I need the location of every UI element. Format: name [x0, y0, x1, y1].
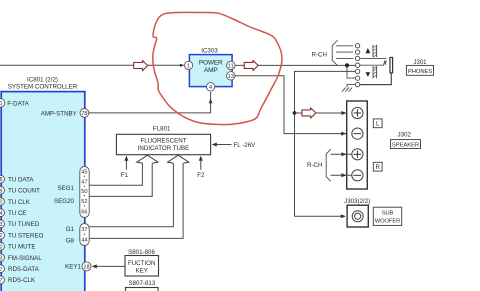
- switch direction triangle down: [366, 72, 371, 77]
- svg-text:FL -26V: FL -26V: [234, 142, 257, 149]
- label FL -26V with arrow into FL801: [212, 142, 257, 149]
- ground chassis symbol: [342, 88, 352, 92]
- wire IC303 pin 11 to J301 node: [235, 64, 356, 66]
- svg-text:SUB: SUB: [382, 211, 394, 217]
- filament arrow F1: [121, 156, 129, 179]
- IC801 system controller box: [1, 77, 85, 291]
- label J301 PHONES: [406, 60, 433, 76]
- svg-text:INDICATOR TUBE: INDICATOR TUBE: [138, 145, 190, 152]
- fluorescent tube FL801 box: [116, 125, 210, 154]
- IC801 pin 78 AMP-STNBY: [41, 109, 89, 118]
- IC303 pin 13: [227, 72, 235, 80]
- wire AMP-STNBY pin 78 to IC303 pin 4: [89, 92, 213, 113]
- svg-text:KEY1: KEY1: [65, 264, 81, 271]
- svg-text:G8: G8: [66, 238, 75, 245]
- subwoofer connector J303: [344, 198, 370, 227]
- svg-text:50: 50: [81, 189, 87, 195]
- svg-text:L: L: [376, 121, 380, 128]
- svg-text:0: 0: [0, 200, 3, 206]
- svg-text:IC801 (2/2): IC801 (2/2): [27, 77, 58, 84]
- svg-text:1: 1: [187, 63, 190, 69]
- IC303 pin 4: [206, 83, 214, 91]
- svg-text:J301: J301: [413, 60, 427, 66]
- svg-text:FM-SIGNAL: FM-SIGNAL: [8, 255, 42, 262]
- svg-text:7: 7: [0, 278, 3, 284]
- svg-text:R-CH: R-CH: [307, 162, 322, 169]
- svg-text:2: 2: [0, 233, 3, 239]
- J302 terminal plus L: [352, 107, 363, 118]
- function key switches S801-806: [125, 249, 159, 276]
- svg-text:TU STEREO: TU STEREO: [8, 232, 44, 239]
- svg-text:SYSTEM CONTROLLER: SYSTEM CONTROLLER: [8, 84, 78, 91]
- svg-text:11: 11: [228, 63, 234, 69]
- block arrow SEG bus into FL801: [137, 155, 158, 163]
- svg-text:R-CH: R-CH: [312, 51, 327, 58]
- switch direction triangle up: [366, 48, 371, 53]
- IC801 left pins TU/RDS group: [0, 175, 44, 284]
- svg-text:TU CE: TU CE: [8, 210, 27, 217]
- svg-text:SEG1: SEG1: [57, 185, 74, 192]
- wire IC303 pin 13 to J302 minus L: [235, 76, 346, 134]
- svg-text:SPEAKER: SPEAKER: [392, 142, 419, 148]
- jack spring contact lower: [373, 66, 377, 78]
- red annotation arrow A2: [244, 60, 258, 70]
- svg-text:7: 7: [0, 267, 3, 273]
- J302 terminal minus R: [352, 170, 363, 181]
- svg-text:47: 47: [81, 180, 87, 186]
- J302 terminal plus R: [352, 149, 363, 160]
- node junction speaker feed: [293, 111, 297, 115]
- wire R-CH to plus R: [331, 153, 353, 155]
- speaker connector J302 box: [347, 101, 368, 189]
- wire SEG1 pin 47 to block arrow: [89, 163, 142, 185]
- svg-text:FLUORESCENT: FLUORESCENT: [140, 137, 186, 144]
- op-amp IC303 POWER AMP box: [189, 48, 232, 87]
- svg-text:3: 3: [0, 222, 3, 228]
- svg-text:KEY: KEY: [136, 268, 148, 275]
- svg-text:R: R: [375, 164, 380, 171]
- svg-text:TU COUNT: TU COUNT: [8, 188, 40, 195]
- IC801 G pin group capsule 37-44: [80, 224, 89, 246]
- wire S801-806 to KEY1 pin 18: [92, 264, 125, 268]
- IC801 pin 70 F-DATA: [0, 99, 30, 108]
- IC801 SEG pin group capsule 45-66: [80, 167, 89, 218]
- headphone jack J301 contacts: [336, 44, 360, 87]
- svg-text:WOOFER: WOOFER: [375, 218, 400, 224]
- wire c6 to junction: [347, 65, 355, 78]
- svg-text:J302: J302: [397, 131, 411, 138]
- svg-text:RDS-DATA: RDS-DATA: [8, 266, 40, 273]
- wire G1 pin 37 to block arrow: [89, 163, 173, 227]
- svg-text:TU TUNED: TU TUNED: [8, 221, 40, 228]
- wire SEG20 pin 50 to block arrow: [89, 163, 152, 196]
- svg-text:S801-806: S801-806: [128, 249, 155, 256]
- wire jack sleeve to c7: [360, 73, 392, 85]
- svg-text:18: 18: [83, 265, 89, 271]
- filament arrow F2: [197, 156, 205, 179]
- svg-text:S807-813: S807-813: [128, 280, 155, 287]
- svg-text:37: 37: [81, 227, 87, 233]
- svg-text:66: 66: [81, 210, 87, 216]
- red annotation arrow A1: [134, 61, 148, 71]
- IC303 pin 1: [185, 61, 193, 69]
- svg-text:0: 0: [0, 244, 3, 250]
- svg-text:IC303: IC303: [201, 48, 218, 55]
- red freehand circle around IC303: [153, 12, 282, 124]
- wire node to J302 plus L: [295, 112, 353, 114]
- svg-text:45: 45: [81, 170, 87, 176]
- wire c7 to ground: [347, 85, 355, 88]
- wire phones return c5 to speaker node: [295, 71, 356, 113]
- svg-text:F1: F1: [121, 172, 129, 179]
- svg-text:TU DATA: TU DATA: [8, 176, 34, 183]
- label SUB WOOFER: [373, 207, 401, 225]
- red annotation arrow A3: [302, 108, 316, 118]
- svg-text:78: 78: [81, 111, 87, 117]
- svg-text:F-DATA: F-DATA: [7, 100, 29, 107]
- svg-text:G1: G1: [66, 226, 75, 233]
- svg-text:PHONES: PHONES: [408, 69, 432, 75]
- svg-text:52: 52: [81, 199, 87, 205]
- R-CH brace to J302 R terminals: [307, 149, 331, 181]
- wire R-CH to minus R: [331, 174, 353, 176]
- block arrow G bus into FL801: [168, 155, 189, 163]
- svg-text:AMP: AMP: [204, 67, 218, 74]
- svg-text:FUCTION: FUCTION: [128, 260, 156, 267]
- svg-text:13: 13: [228, 74, 234, 80]
- wire G8 pin 44 to block arrow: [89, 163, 183, 238]
- svg-text:RDS-CLK: RDS-CLK: [8, 277, 36, 284]
- svg-text:FL801: FL801: [153, 125, 171, 132]
- svg-text:4: 4: [0, 211, 3, 217]
- svg-text:44: 44: [81, 237, 87, 243]
- label J302 SPEAKER: [391, 131, 421, 148]
- function key switches S807-813: [126, 280, 159, 291]
- svg-text:4: 4: [209, 85, 212, 91]
- IC801 pin 18 KEY1: [65, 262, 91, 271]
- wire node to J303 subwoofer: [295, 113, 345, 216]
- svg-text:AMP-STNBY: AMP-STNBY: [41, 110, 77, 117]
- svg-text:F2: F2: [197, 172, 205, 179]
- svg-text:8: 8: [0, 177, 3, 183]
- jack spring contact upper: [373, 45, 377, 57]
- label L box: [373, 119, 382, 128]
- J301 switch lever R-CH: [312, 40, 338, 65]
- IC303 pin 11: [227, 61, 235, 69]
- svg-text:9: 9: [0, 188, 3, 194]
- node junction at phones R-CH: [345, 63, 349, 67]
- svg-text:0: 0: [0, 101, 2, 107]
- svg-text:3: 3: [0, 256, 3, 262]
- jack plug tip: [390, 58, 393, 73]
- wire AUDIO-IN to IC303 pin 1: [0, 64, 184, 67]
- J302 terminal minus L: [352, 128, 363, 139]
- label R box: [373, 162, 382, 171]
- svg-text:POWER: POWER: [199, 59, 223, 66]
- jack plug prong: [360, 58, 387, 65]
- svg-text:TU CLK: TU CLK: [8, 199, 31, 206]
- svg-text:J303(2/2): J303(2/2): [344, 198, 370, 205]
- svg-text:TU MUTE: TU MUTE: [8, 244, 36, 251]
- svg-text:SEG20: SEG20: [54, 198, 75, 205]
